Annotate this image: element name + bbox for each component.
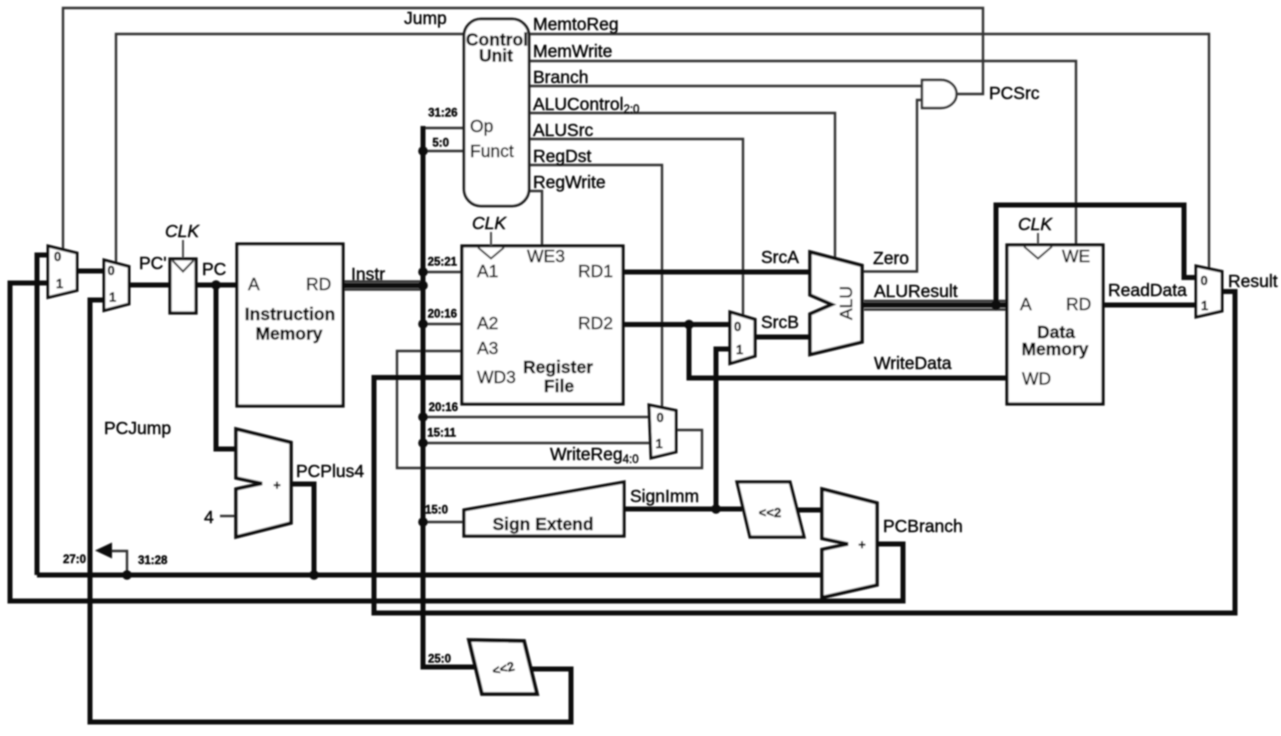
svg-text:RD: RD [1066,294,1091,314]
wire Instr 5:0 to Funct [423,150,463,152]
mux SrcB (0/1) [730,312,755,364]
svg-text:CLK: CLK [1018,214,1053,234]
svg-text:RegDst: RegDst [533,146,591,166]
wire PC: register to instruction memory A [196,283,237,288]
wire artifact thin line above Instr [344,280,421,282]
svg-text:1: 1 [56,276,63,291]
AND gate PCSrc [922,80,956,108]
node SignImm junction [711,504,721,514]
svg-text:RD2: RD2 [578,313,613,333]
concat arrowhead 27:0 [95,543,112,559]
node WriteReg1 tap [418,438,428,448]
wire PCPlus4 to PCSrc-mux input 0 [37,255,48,575]
svg-text:Register: Register [523,357,593,377]
svg-text:Sign Extend: Sign Extend [492,514,593,534]
wire SrcB-mux output to ALU [755,335,810,340]
data memory CLK stub [1037,233,1039,244]
wire artifact thin line below ALUResult [864,308,1006,310]
wire Instr 15:0 to Sign Extend [423,521,464,523]
wire artifact thin line below Instr [344,288,421,290]
svg-text:27:0: 27:0 [63,554,86,566]
svg-text:RD: RD [306,274,331,294]
wire PCBranch to PCSrc-mux input 1 [10,283,903,601]
wire PC' jump-mux output to PC register [128,283,170,288]
svg-text:25:21: 25:21 [428,257,458,269]
mux Result (0/1) [1196,266,1222,317]
data memory box [1007,245,1103,404]
svg-text:WE: WE [1062,246,1090,266]
node RD2 WriteData junction [684,320,694,330]
svg-text:1: 1 [1201,298,1208,313]
svg-text:File: File [544,376,574,396]
wire RD2 to SrcB-mux input 0 [623,322,731,327]
svg-text:PCJump: PCJump [104,418,171,438]
svg-text:WD: WD [1022,369,1051,389]
wire artifact thin line above ALUResult [864,300,1006,302]
svg-text:0: 0 [54,249,61,264]
shifter left-2 jump [469,640,537,694]
svg-text:Funct: Funct [470,141,514,161]
svg-text:<<2: <<2 [759,505,781,520]
wire SignImm: sign extend output [624,507,742,512]
svg-text:ReadData: ReadData [1108,280,1187,300]
wire Instr 31:26 to Op [424,127,463,129]
svg-text:20:16: 20:16 [428,309,457,321]
svg-text:Memory: Memory [1021,339,1088,359]
wire constant 4 to PCPlus4 adder [220,515,236,517]
shifter left-2 branch [737,482,804,537]
wire RegWrite: control unit to register file WE3 [529,191,542,246]
wire PC branch down to PCPlus4 adder [216,285,236,449]
svg-text:5:0: 5:0 [432,138,449,150]
wire Instr 25:21 to A1 [423,271,462,273]
wire Instr 20:16 to A2 [423,323,462,325]
svg-text:WD3: WD3 [477,367,516,387]
wire ALUResult: ALU to data memory A [862,303,1007,308]
svg-text:WE3: WE3 [527,246,565,266]
mux PCSrc (0/1) [48,246,77,298]
wire ReadData: data memory RD to result-mux input 1 [1103,303,1195,308]
svg-text:A2: A2 [477,313,498,333]
wire PCPlus4: adder output across bottom [290,484,314,575]
wire WriteReg loop: mux output to A3 [397,351,702,468]
wire Branch: control unit to AND gate input [529,85,922,87]
register file CLK stub [490,232,492,246]
wire ALUSrc: control unit to SrcB-mux select [529,139,743,317]
PC register clock chevron [173,261,194,272]
wire MemWrite: control unit to data memory WE [529,61,1076,245]
register file clock chevron [478,248,504,259]
svg-text:1: 1 [109,290,116,305]
wire MemtoReg: control unit to result-mux select [529,34,1209,269]
node concat 31:28 junction [122,570,132,580]
svg-text:15:11: 15:11 [427,428,456,440]
wire PCJump 31:28 concat tap [109,551,127,575]
svg-text:PCPlus4: PCPlus4 [296,461,364,481]
svg-text:SrcA: SrcA [761,247,799,267]
wire Instr 15:11 to WriteReg-mux 1 [423,442,650,444]
svg-text:31:28: 31:28 [138,555,168,567]
node WriteReg0 tap [418,412,428,422]
wire Instr 20:16 to WriteReg-mux 0 [423,416,650,418]
wire Result: mux output down right edge along bottom [374,292,1235,614]
node ALUResult junction [991,300,1001,310]
ALU U-shape [810,252,862,355]
svg-text:4: 4 [204,507,214,527]
svg-text:Branch: Branch [533,67,588,87]
wire PCJump to jump-mux input 1 [90,300,571,722]
svg-text:0: 0 [108,263,115,278]
svg-text:+: + [273,478,281,493]
wire RegDst: control unit to WriteReg-mux select [529,165,662,408]
svg-text:25:0: 25:0 [428,654,451,666]
sign extend box [464,482,624,536]
wire SrcA: RD1 to ALU [623,270,810,275]
svg-text:SignImm: SignImm [630,486,699,506]
svg-text:ALU: ALU [836,286,856,320]
svg-text:PC: PC [202,259,226,279]
data memory clock chevron [1024,247,1052,259]
node Funct tap [418,146,428,156]
svg-text:+: + [858,537,866,552]
svg-text:20:16: 20:16 [429,402,458,414]
svg-text:Instr: Instr [351,264,385,284]
wire SignImm up to SrcB-mux input 1 [716,349,731,509]
wire shifted immediate to PCBranch adder [795,508,822,513]
node A1 tap [418,267,428,277]
svg-text:Unit: Unit [479,46,513,66]
wire ALUControl: control unit to ALU control input [529,113,835,262]
svg-text:CLK: CLK [165,221,200,241]
wire PCPlus4 horizontal to PCBranch adder [37,573,822,578]
svg-text:0: 0 [657,410,664,425]
svg-text:SrcB: SrcB [761,312,799,332]
node A2 tap [418,319,428,329]
svg-text:1: 1 [736,342,743,357]
register file box [462,246,623,404]
node SignExtend tap [418,517,428,527]
control unit box [464,19,529,206]
svg-text:0: 0 [734,319,741,334]
svg-text:RD1: RD1 [578,261,613,281]
node PC junction [211,280,221,290]
svg-text:31:26: 31:26 [428,108,457,120]
svg-text:WriteData: WriteData [874,353,952,373]
svg-text:CLK: CLK [472,213,507,233]
instruction memory box [237,244,343,406]
wire ALUResult bypass to result-mux input 0 [996,205,1195,305]
wire WriteData: RD2 branch to data memory WD [689,325,1007,379]
wire Zero: ALU to AND gate input [863,100,922,272]
svg-text:15:0: 15:0 [425,505,448,517]
wire Instr vertical bus [423,126,476,667]
svg-text:PCBranch: PCBranch [883,516,963,536]
adder PCBranch [822,489,877,598]
svg-text:MemWrite: MemWrite [533,41,612,61]
wire Instr: instruction memory RD to bus [343,283,423,288]
node Instr junction [418,281,428,291]
svg-text:Memory: Memory [255,324,322,344]
svg-text:PCSrc: PCSrc [989,83,1040,103]
svg-text:MemtoReg: MemtoReg [533,14,619,34]
svg-text:A1: A1 [477,261,498,281]
mux Jump (0/1) [104,260,129,311]
svg-text:Zero: Zero [873,248,909,268]
wire PCSrc-mux output to jump-mux input 0 [77,269,104,274]
svg-text:A3: A3 [477,338,498,358]
svg-text:0: 0 [1201,273,1208,288]
wire PCSrc net: AND output up over top to PCSrc-mux select [63,8,983,250]
svg-text:1: 1 [656,436,663,451]
svg-text:ALUSrc: ALUSrc [533,120,594,140]
wire Jump: control unit left to jump-mux select [116,34,463,264]
mux WriteReg (0/1) [649,405,676,458]
svg-text:Jump: Jump [404,8,447,28]
svg-text:A: A [248,274,260,294]
svg-text:Result: Result [1228,271,1278,291]
svg-text:Op: Op [470,116,493,136]
svg-text:ALUResult: ALUResult [874,281,958,301]
PC register [170,259,196,313]
svg-text:PC': PC' [139,253,167,273]
node PCPlus4 junction [309,570,319,580]
svg-text:RegWrite: RegWrite [533,172,606,192]
PC register CLK stub [182,240,184,258]
svg-text:A: A [1020,294,1032,314]
svg-text:Instruction: Instruction [245,304,335,324]
adder PCPlus4 [236,429,291,537]
